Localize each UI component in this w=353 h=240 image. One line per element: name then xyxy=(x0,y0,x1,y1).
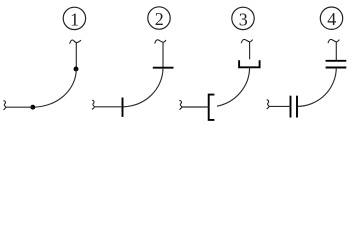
vertical wire 2 xyxy=(162,42,164,67)
wire break squiggle, left end of horizontal wire 2 xyxy=(92,100,94,109)
gap plate pair on horizontal wire 4 xyxy=(290,96,292,118)
corner arc wire 2 xyxy=(123,68,164,107)
junction dot, horizontal wire 1 xyxy=(30,105,35,110)
wire break squiggle, top of vertical wire 3 xyxy=(241,39,252,43)
svg-text:1: 1 xyxy=(70,9,79,29)
horizontal wire 2 xyxy=(94,106,122,108)
wire break squiggle, top of vertical wire 1 xyxy=(70,40,81,44)
label circle 1 xyxy=(63,7,85,29)
svg-text:4: 4 xyxy=(327,9,336,29)
wire break squiggle, left end of horizontal wire 4 xyxy=(267,100,269,109)
svg-text:2: 2 xyxy=(155,9,164,29)
corner arc wire 1 xyxy=(33,69,77,107)
horizontal wire 4 xyxy=(269,105,291,107)
horizontal wire 1 xyxy=(6,106,33,108)
wire break squiggle, left end of horizontal wire 3 xyxy=(179,100,181,109)
crossing tick on vertical wire 2 xyxy=(153,67,174,69)
label circle 2 xyxy=(148,7,170,29)
wire break squiggle, top of vertical wire 2 xyxy=(155,40,166,44)
bracket on horizontal wire 3 xyxy=(209,95,215,120)
vertical wire 1 xyxy=(75,43,77,69)
gap plate pair on vertical wire 4 xyxy=(326,60,347,62)
wire break squiggle, left end of horizontal wire 1 xyxy=(3,101,5,110)
crossing tick on horizontal wire 2 xyxy=(122,98,124,117)
vertical wire 3 xyxy=(249,42,251,60)
label circle 4 xyxy=(320,7,342,29)
horizontal wire 3 xyxy=(182,106,209,108)
vertical wire 4 xyxy=(335,42,337,61)
corner arc wire 3 xyxy=(217,67,250,106)
corner arc wire 4 xyxy=(297,68,336,107)
svg-text:3: 3 xyxy=(239,9,248,29)
junction dot, vertical wire 1 xyxy=(74,67,79,72)
bracket (cup) on vertical wire 3 xyxy=(239,60,260,67)
label circle 3 xyxy=(232,7,254,29)
wire break squiggle, top of vertical wire 4 xyxy=(328,39,339,43)
